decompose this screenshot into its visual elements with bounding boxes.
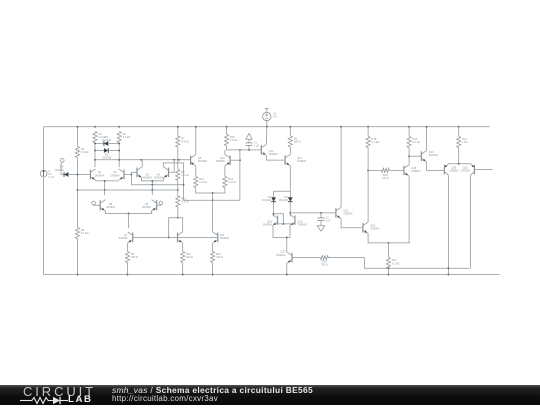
transistor Q16 [290,215,307,227]
svg-text:R12240 Ω: R12240 Ω [216,252,223,259]
wire Q22 collector up [340,127,342,208]
wire Q22 emitter to Q23 base [341,219,363,228]
svg-text:R23.6 kΩ: R23.6 kΩ [81,147,89,154]
logo wire right [60,399,68,401]
wire R7 to R9 [177,147,179,170]
wire mirror base jog [274,214,284,224]
svg-text:R19100 Ω: R19100 Ω [382,173,389,180]
resistor R11 [181,252,194,263]
svg-text:D51N4148: D51N4148 [54,165,64,172]
wire Q13 emitter to Q14 base [267,156,286,161]
svg-text:D31N4148: D31N4148 [262,195,272,202]
node V1 at rail [266,126,268,128]
node R12 at ground [212,274,214,276]
wire Q17 emitter down [286,263,288,274]
node y190 at column A [77,189,79,191]
wire Q14 collector up [289,147,291,155]
diode D4 [279,195,293,202]
svg-text:Q182N3904: Q182N3904 [411,166,421,173]
node R21 at rail [458,126,460,128]
resistor R14 [223,177,236,188]
port IN2 [159,201,163,205]
node mirror emitter tail [286,236,288,238]
node R11 at ground [182,274,184,276]
node Q22 collector at rail [340,126,342,128]
wire Q1 emitter drop [95,179,97,182]
ground GND1 [317,226,325,231]
node pair2 tail crosses y184 [151,184,153,186]
wire R21 to pair [458,148,460,164]
wire port IN2 stem [160,204,162,207]
wire Q19 collector down [447,175,449,274]
wire R20 bottom [408,148,410,157]
wire pair2 emitter bar [141,178,163,181]
node D3 mirror junction [273,213,275,215]
node C1 on y150 [248,149,250,151]
resistor R21 [457,137,468,148]
wire mirror out net [290,212,336,214]
capacitor C2 [318,213,332,226]
wire mirror tail down [212,193,214,232]
svg-text:Q32N3904: Q32N3904 [143,173,153,180]
node y190 pair2 tail [151,189,153,191]
node D2 right [118,150,120,152]
resistor R20 [407,137,420,148]
transistor Q2 [110,169,124,180]
wire port P1 stem [61,162,63,174]
svg-text:R55.1 kΩ: R55.1 kΩ [81,228,89,235]
wire R21 top [458,127,460,137]
transistor Q4 [154,167,169,180]
node D2 left [94,150,96,152]
svg-text:R153.6 kΩ: R153.6 kΩ [230,135,238,142]
logo wire mid [48,399,53,401]
node Q17 at ground [286,274,288,276]
resistor R17 [386,258,399,269]
wire pair3 emitter bar [105,211,151,214]
node Q8 emitter at rail [195,126,197,128]
wire base to R19 [368,169,381,171]
svg-text:R6400 Ω: R6400 Ω [294,137,301,144]
wire pair1 tail to Q5 collector [104,190,106,195]
wire Q20 base right [474,169,492,171]
wire pair1 tail [104,181,106,190]
wire R11 to ground [182,263,184,275]
svg-text:Q132N3904: Q132N3904 [269,149,279,156]
node R6 at rail [289,126,291,128]
wire Q17 collector up [286,248,288,252]
resistor R13 [194,177,207,188]
wire R9 to R10 [177,181,179,197]
resistor R15 [224,135,237,146]
wire D4 to mirror [289,202,291,217]
transistor Q21 [421,150,438,162]
wire Q4 base right [169,171,175,173]
transistor Q22 [336,207,353,218]
node R17 crosses y268 [388,267,390,269]
node y190 pair1 tail [104,189,106,191]
wire base bus y237 [133,236,218,238]
wire Q10 base right [230,159,240,161]
svg-text:R75.4 kΩ: R75.4 kΩ [181,137,189,144]
node bus at Q4 base branch [173,159,175,161]
svg-text:Q62N3904: Q62N3904 [142,202,152,209]
node D1 left [94,143,96,145]
wire mirror emitter bar [273,226,290,237]
caption line 2 [112,394,218,403]
wire pair2 tail to Q6 collector [151,190,153,195]
transistor Q9 [178,232,183,243]
wire left branch upper [43,127,45,170]
transistor Q6 [142,200,157,211]
wire Q8 collector down [195,166,197,177]
wire Q7 emitter down [127,243,129,252]
svg-text:Q202N3906: Q202N3906 [461,165,471,172]
resistor R7 [176,136,189,147]
wire shared base drop [130,172,132,184]
wire port IN1 to Q5 [94,204,101,206]
svg-text:R91.2 kΩ: R91.2 kΩ [181,170,189,177]
wire port IN1 stem [93,204,95,207]
current source I1 [40,170,54,179]
svg-text:Q112N3904: Q112N3904 [220,233,230,240]
transistor Q20 [461,164,475,175]
wire D4 top stem [289,191,291,197]
resistor R16 [320,256,328,267]
node y184 meets Q4 loop [183,184,185,186]
node Q19 collector crosses y268 [447,267,449,269]
svg-text:Q42N3904: Q42N3904 [154,173,164,180]
wire pair2 tail [151,181,153,190]
wire diode D1 row right [108,143,119,145]
transistor Q7 [118,232,132,243]
wire Q3 collector up [141,160,143,167]
wire net y150 [227,149,262,151]
wire column A lower [77,239,79,275]
logo schematic squiggle: wire, resistor, diode [20,396,70,405]
node mirror tail crosses y200 [212,199,214,201]
node Q10 base on column [239,159,241,161]
svg-text:R206.2 kΩ: R206.2 kΩ [413,137,421,144]
wire R12 to ground [212,263,214,275]
wire Q9 collector loop [169,218,183,238]
node y190 at column R9 [177,189,179,191]
svg-text:Q172N3904: Q172N3904 [276,250,286,257]
svg-text:Q152N3904: Q152N3904 [263,220,273,227]
wire Q2 base to shared node [124,174,131,176]
transistor Q8 [191,155,208,166]
wire Q11 emitter down [212,243,214,252]
wire R3 to Q1 collector [94,143,96,168]
node R3 at rail [94,126,96,128]
transistor Q1 [90,169,104,180]
node bus at Q3 collector [140,159,142,161]
wire net y184 [131,184,183,186]
wire Q10 collector down [224,166,226,177]
transistor Q11 [213,232,230,243]
wire pair4 top bar [448,163,470,165]
node pair4 top center [458,163,460,165]
node R18 at rail [367,126,369,128]
resistor R18 [366,137,379,148]
svg-text:R185.1 kΩ: R185.1 kΩ [372,137,380,144]
svg-text:R16700 Ω: R16700 Ω [321,259,328,266]
node pair3 tail [128,213,130,215]
node Q19 collector at ground [447,274,449,276]
svg-text:Q102N3906: Q102N3906 [216,156,226,163]
wire R15 to y150 [226,146,228,150]
capacitor C1 [246,141,260,150]
wire diode D2 row left [95,150,104,152]
resistor R19 [381,168,389,180]
node bus at column R3 [94,159,96,161]
wire Q18 collector up [408,156,410,165]
svg-text:R44.3 kΩ: R44.3 kΩ [123,132,131,139]
resistor R9 [176,170,189,181]
wire Q17 base right [292,257,320,259]
logo diode [53,396,60,403]
node Q18 base branch [367,169,369,171]
wire V1 to rail [266,121,268,127]
wire Q18 to Q21 base [409,155,421,157]
wire D5 to Q1 base [68,174,90,176]
node D4 output junction [289,212,291,214]
wire pair1 emitter bar [96,180,119,182]
wire R8 to ground [127,263,129,275]
diode D1 [102,135,112,146]
node R10 on Q9 loop [177,217,179,219]
svg-text:Q222N3904: Q222N3904 [343,209,353,216]
wire pair3 tail drop [128,214,130,229]
wire R16 to step [328,257,364,259]
node mirror bar tail [212,192,214,194]
svg-text:V15 V: V15 V [273,112,277,119]
diode D3 [262,195,276,202]
transistor Q14 [285,155,307,166]
svg-text:R141.2 kΩ: R141.2 kΩ [228,177,236,184]
node bus at column R4 [118,159,120,161]
node Q9 loop on bus [168,236,170,238]
diode D5 [54,165,68,177]
node R7 at rail [177,126,179,128]
svg-text:C21 μF: C21 μF [325,215,331,222]
wire R4 to Q2 collector [118,143,120,168]
svg-text:Q22N3904: Q22N3904 [110,170,120,177]
wire Q14 emitter down [274,166,291,192]
resistor R5 [75,228,88,239]
wire net y190 [78,189,178,191]
wire mirror base bus [278,223,295,225]
svg-text:Q212N3904: Q212N3904 [429,150,439,157]
caption line 1 [112,385,313,395]
wire column A upper [77,127,79,147]
node R8 at ground [127,274,129,276]
wire R18 down [367,148,369,171]
resistor R8 [125,252,138,263]
wire Q20 collector down [469,175,471,268]
wire top supply rail [44,126,490,128]
transistor Q13 [261,144,278,156]
wire mirror tail drop [286,237,288,248]
svg-text:Q52N3904: Q52N3904 [106,202,116,209]
node R20 at rail [408,126,410,128]
svg-text:R176.2 kΩ: R176.2 kΩ [392,258,400,265]
transistor Q19 [444,164,458,175]
wire Q8 emitter to rail [195,127,197,155]
transistor Q5 [100,200,115,211]
wire R7 top [177,127,179,136]
svg-text:R131.2 kΩ: R131.2 kΩ [199,177,207,184]
svg-text:R211 kΩ: R211 kΩ [462,137,467,144]
node Q18 collector node [408,155,410,157]
wire Q21 collector up [426,127,428,151]
CircuitLab logo text CIRCUIT [23,384,93,399]
node R15 at rail [226,126,228,128]
resistor R3 [93,132,106,143]
port IN1 [92,201,96,205]
wire R18 top [367,127,369,137]
resistor R12 [211,252,224,263]
wire Q3 base left [131,171,137,173]
resistor R10 [176,196,189,207]
node Q21 collector at rail [426,126,428,128]
wire step down to y268 [364,258,469,269]
svg-text:Q82N3906: Q82N3906 [198,156,208,163]
svg-text:D21N4148: D21N4148 [102,153,112,160]
svg-text:Q232N3904: Q232N3904 [370,224,380,231]
wire bottom ground rail [44,274,500,276]
node mirror jog on bus [282,223,284,225]
wire D3 to mirror [273,202,275,217]
svg-text:Q142N3904: Q142N3904 [297,156,307,163]
svg-text:Q192N3906: Q192N3906 [449,165,459,172]
node Q2-Q3 base tie [130,174,132,176]
node tail resistor tap [388,242,390,244]
transistor Q10 [216,155,230,166]
wire Q4 base branch up [173,160,175,173]
transistor Q17 [276,250,292,264]
wire Q18 emitter down [408,176,410,243]
wire R6 top [289,127,291,136]
port P1 [61,159,65,163]
svg-text:Q162N3904: Q162N3904 [298,220,308,227]
wire port IN2 to Q6 [157,204,161,206]
wire Q23 collector up [367,170,369,222]
node flag N1 [246,133,252,143]
wire R17 stem [388,243,390,258]
wire net y200 [184,150,240,200]
logo resistor [32,397,48,403]
wire R19 to Q18 [389,169,404,171]
node column A at ground [77,274,79,276]
node R4 at rail [118,126,120,128]
wire R15 top [226,127,228,135]
wire Q9 emitter down [182,243,184,252]
resistor R2 [75,147,88,158]
wire Q4 collector loop [163,163,183,200]
wire diode D1 row left [95,143,104,145]
node column A at rail [77,126,79,128]
wire diode D2 row right [108,150,119,152]
wire R10 to Q9 loop [177,207,179,218]
wire R20 top [408,127,410,137]
diode D2 [102,148,112,160]
svg-text:C11 μF: C11 μF [254,141,260,148]
svg-text:Q72N3904: Q72N3904 [118,233,128,240]
voltage source V1 [263,108,278,121]
resistor R6 [288,136,301,147]
wire left branch lower [43,177,45,274]
wire base bus y160 [95,159,191,161]
wire D3 top stem [273,191,275,197]
logo wire left [20,399,32,401]
node R17 at ground [388,274,390,276]
node column240 at y150 [239,149,241,151]
footer bar [0,385,540,406]
wire R17 to ground [388,269,390,275]
resistor R4 [117,132,130,143]
transistor Q23 [363,222,380,233]
wire column A middle [77,158,79,228]
svg-text:D41N4148: D41N4148 [279,195,289,202]
node pair2 tail on bar [151,180,153,182]
wire PNP mirror bottom bar [196,188,225,194]
svg-text:R11240 Ω: R11240 Ω [186,252,193,259]
wire Q13 collector up [266,127,268,145]
wire Q21 emitter down [427,162,445,171]
svg-text:Q12N3904: Q12N3904 [95,170,105,177]
node D1 right [118,143,120,145]
transistor Q15 [263,215,278,227]
node bus at column R7 [178,159,180,161]
wire Q10 emitter up [224,150,226,155]
node pair1 tail on bar [104,180,106,182]
svg-text:R8240 Ω: R8240 Ω [131,252,138,259]
transistor Q18 [404,165,421,176]
transistor Q3 [137,167,152,180]
node D5 wire crosses column A [77,174,79,176]
wire Q23 emitter down [368,233,410,243]
node C2 tap [320,212,322,214]
